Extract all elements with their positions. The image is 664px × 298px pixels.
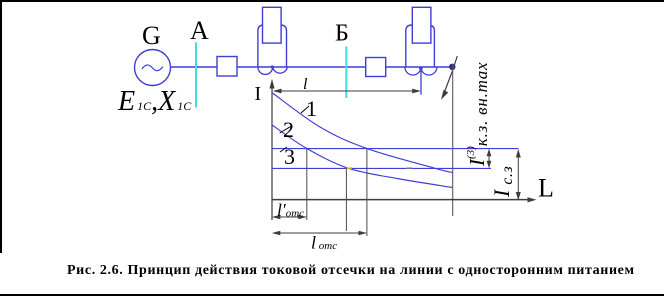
- axis I vertical: [271, 85, 273, 220]
- svg-text:1: 1: [306, 96, 317, 121]
- svg-text:l отс: l отс: [311, 233, 337, 253]
- bus Б: [345, 46, 347, 98]
- axis L horizontal: [272, 199, 532, 201]
- generator sine symbol: [142, 65, 163, 71]
- generator G circle: [135, 50, 171, 86]
- svg-text:А: А: [190, 16, 209, 45]
- label 2 tick: [280, 127, 291, 134]
- svg-text:l: l: [303, 76, 308, 93]
- transformer T2 inner rect: [412, 7, 431, 43]
- node CT2 junction: [419, 67, 423, 71]
- table border bottom: [0, 294, 664, 296]
- curve 2: [272, 125, 453, 188]
- dimension Ic3 vertical: [517, 151, 519, 200]
- tick at l otc end: [366, 149, 368, 236]
- svg-text:3: 3: [284, 144, 295, 169]
- setting line lower: [272, 167, 491, 169]
- label 3 tick: [280, 147, 287, 152]
- transformer T1 outer box: [258, 25, 287, 67]
- label 1 tick: [301, 106, 309, 113]
- transformer T2 CT arcs: [405, 67, 437, 75]
- svg-text:2: 2: [283, 117, 294, 142]
- yellow dash 1: [347, 167, 353, 169]
- svg-text:l′отс: l′отс: [277, 200, 304, 220]
- curve 1: [273, 93, 453, 173]
- wire CT2 tap down: [420, 68, 422, 95]
- svg-text:G: G: [142, 21, 161, 50]
- setting line upper: [272, 148, 519, 150]
- svg-text:I(3)к.з. вн.mах: I(3)к.з. вн.mах: [465, 62, 491, 167]
- table border left: [0, 0, 2, 253]
- svg-text:Б: Б: [335, 21, 349, 47]
- svg-text:Рис. 2.6. Принцип действия ток: Рис. 2.6. Принцип действия токовой отсеч…: [67, 263, 635, 278]
- dimension l line: [274, 90, 419, 92]
- transformer T2 outer box: [406, 25, 435, 67]
- yellow dash 2: [407, 167, 413, 169]
- dimension arrow between setting lines: [488, 150, 490, 167]
- svg-text:L: L: [538, 174, 554, 203]
- breaker Q2: [366, 58, 386, 77]
- transformer T1 CT arcs: [258, 67, 287, 74]
- table border top: [0, 0, 664, 2]
- wire main line: [171, 66, 453, 68]
- breaker Q1: [217, 57, 237, 77]
- tick at l'otc end: [306, 149, 308, 220]
- svg-text:Е1С,Х1С: Е1С,Х1С: [117, 86, 192, 117]
- tick mid: [345, 168, 347, 231]
- dimension l'otc: [273, 216, 306, 218]
- svg-text:I: I: [255, 83, 262, 105]
- fault arrow: [444, 56, 458, 95]
- bus A: [195, 42, 197, 107]
- fault location vertical: [452, 64, 454, 216]
- svg-text:Iс.з: Iс.з: [489, 165, 516, 198]
- transformer T1 inner rect: [263, 7, 282, 43]
- node line end dot: [449, 64, 455, 70]
- node CT1 junction: [271, 65, 274, 68]
- dimension l otc: [273, 232, 366, 234]
